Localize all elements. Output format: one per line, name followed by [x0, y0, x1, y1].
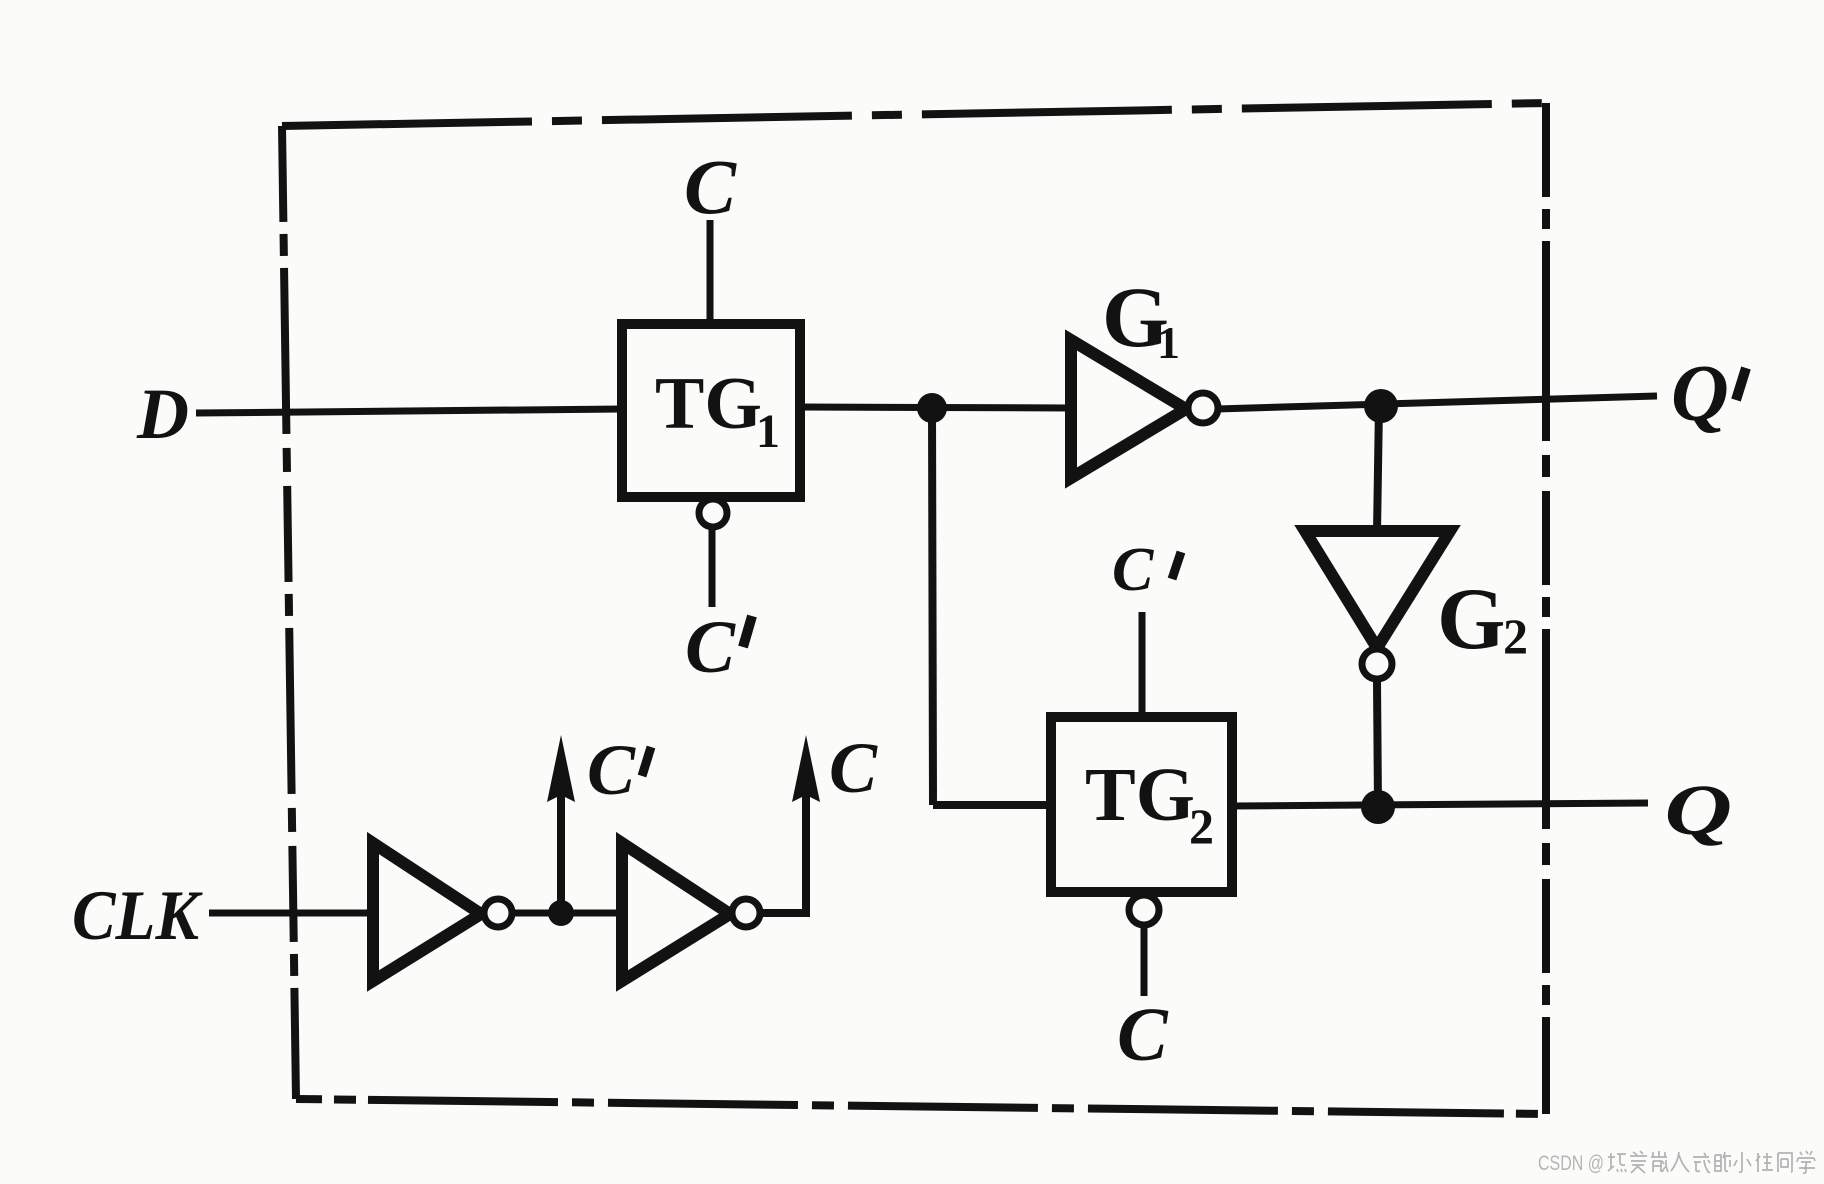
inverter G2 triangle pointing down — [1305, 531, 1450, 648]
wire C arrow — [760, 795, 806, 913]
inverter G2 bubble — [1362, 649, 1392, 679]
svg-text:1: 1 — [756, 405, 780, 458]
TG1 bottom bubble — [699, 499, 727, 527]
wire G2 output down to Q junction — [1377, 681, 1378, 806]
transmission gate TG2 box — [1051, 717, 1232, 892]
clock inverter U4 bubble — [732, 899, 760, 927]
clock inverter U4 triangle — [622, 843, 730, 981]
svg-text:D: D — [136, 374, 189, 454]
wire TG2 C stub — [1141, 926, 1148, 996]
svg-text:C: C — [1117, 993, 1169, 1077]
wire TG1 output to node A to G1 — [800, 407, 1071, 408]
boundary top edge — [282, 103, 1546, 126]
node Q' junction dot — [1364, 389, 1398, 423]
node Q junction dot — [1361, 790, 1395, 824]
boundary right edge — [1542, 103, 1550, 1114]
wire TG1 C stub — [707, 220, 714, 328]
svg-text:C: C — [1112, 536, 1154, 604]
wire node A to TG2 input — [933, 801, 1053, 809]
svg-text:TG: TG — [1085, 753, 1195, 837]
wire node A down — [932, 408, 933, 805]
svg-text:C: C — [587, 730, 636, 810]
svg-text:C: C — [685, 606, 736, 689]
svg-text:CLK: CLK — [72, 877, 203, 955]
transmission gate TG1 box — [622, 324, 800, 497]
clock inverter U3 triangle — [373, 843, 481, 981]
svg-text:CSDN @: CSDN @ — [1538, 1152, 1604, 1175]
TG2 bottom bubble — [1129, 895, 1159, 925]
inverter G1 triangle — [1071, 340, 1186, 478]
wire G1 output to Q' — [1217, 396, 1657, 409]
node A junction dot — [917, 393, 947, 423]
wire CLK input — [209, 910, 374, 917]
wire TG2 C' stub — [1139, 612, 1146, 721]
svg-text:2: 2 — [1189, 798, 1214, 854]
arrowhead C — [792, 735, 820, 802]
boundary left edge — [282, 126, 296, 1099]
svg-text:Q: Q — [1671, 350, 1729, 438]
wire C' arrow — [557, 795, 565, 913]
boundary bottom edge — [296, 1099, 1546, 1114]
svg-text:2: 2 — [1503, 608, 1528, 664]
inverter G1 bubble — [1188, 393, 1218, 423]
svg-text:Q: Q — [1665, 771, 1733, 850]
arrowhead C' — [547, 735, 575, 802]
svg-text:1: 1 — [1157, 317, 1180, 368]
wire Q output — [1232, 803, 1648, 806]
svg-text:G: G — [1437, 571, 1505, 668]
clock inverter U3 bubble — [484, 899, 512, 927]
svg-text:C: C — [684, 143, 737, 230]
wire TG1 C' stub — [709, 528, 716, 607]
node CLK junction dot — [548, 900, 574, 926]
svg-text:C: C — [829, 728, 878, 808]
svg-text:TG: TG — [655, 363, 762, 445]
wire D input — [196, 409, 622, 413]
wire Q' junction down to G2 — [1377, 406, 1379, 532]
wire U3 output to U4 — [512, 910, 624, 917]
